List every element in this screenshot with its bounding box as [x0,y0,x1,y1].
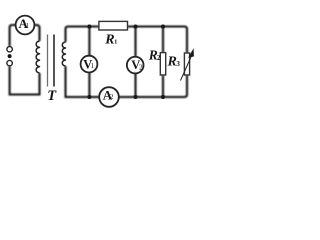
svg-text:1: 1 [114,39,117,46]
svg-text:R: R [167,54,177,69]
node dot (R2 tap, top) [161,25,165,29]
node dot (V2 tap, top) [134,25,138,29]
ammeter A2 [99,87,119,107]
voltmeter V2 [127,57,144,74]
node dot (V1 bottom) [87,95,91,99]
wire R2 branch upper [162,27,164,53]
wire V2 branch [134,27,136,98]
node dot between terminals [8,54,12,58]
svg-text:1: 1 [26,22,30,30]
wire V1 branch [88,27,90,98]
wire primary loop (terminal-A1-coil top, left side, bottom) [10,25,40,46]
terminal (open circle, top) [7,47,12,52]
resistor R2 [160,53,165,75]
wire primary left-bottom [10,66,40,95]
voltmeter V1 [81,56,98,73]
svg-text:1: 1 [91,62,95,70]
wire secondary bottom (coil to R3 corner) [66,66,188,97]
crisp dark components [7,16,165,107]
svg-text:R: R [104,33,114,48]
terminal (open circle, bottom) [7,60,12,65]
resistor R3 (rheostat box) [184,53,189,75]
wire top after R1 to right corner [128,27,188,54]
rheostat arrow R3 [181,48,194,80]
node dot (V1 tap, top) [87,25,91,29]
transformer core (right lamination line) [53,35,55,87]
wire secondary top (coil to R1) [66,27,99,43]
svg-text:3: 3 [176,60,180,68]
svg-text:2: 2 [110,93,114,101]
svg-text:2: 2 [157,54,161,62]
transformer secondary winding [62,42,65,66]
node dot (R2 bottom) [161,95,165,99]
transformer primary winding [36,41,39,73]
transformer core (left lamination line) [47,35,49,87]
svg-text:T: T [47,88,57,104]
node dot (V2 bottom) [134,95,138,99]
soft gray straight wires [10,25,187,97]
resistor R1 [99,21,128,30]
svg-text:2: 2 [139,62,143,71]
wire R2 branch lower [162,75,164,97]
ammeter A1 [16,16,35,35]
